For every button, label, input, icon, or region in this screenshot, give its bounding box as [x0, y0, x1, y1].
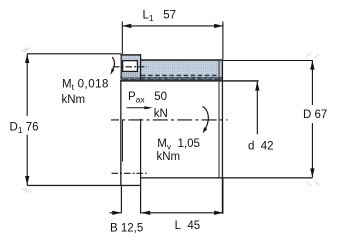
- sleeve hidden dashed line: [141, 74, 219, 76]
- moment arrow M_v (curved): [203, 106, 209, 133]
- housing bottom edge + D bottom extension: [141, 177, 313, 178]
- dimension d 42 : arrow up to bore line: [255, 82, 259, 135]
- flange bottom edge + D1 bottom extension: [27, 185, 141, 186]
- sleeve body (blue bushing section): [141, 60, 223, 77]
- housing left edge: [120, 80, 121, 186]
- svg-text:B 12,5: B 12,5: [110, 222, 143, 234]
- flange hub inner white bore box: [123, 61, 138, 72]
- svg-text:Pax 50: Pax 50: [128, 91, 167, 105]
- moment arrow M_t (curved): [110, 57, 114, 75]
- flange centerline (bottom section): [112, 172, 147, 174]
- svg-text:L1 57: L1 57: [143, 10, 177, 24]
- housing / sleeve right edge: [222, 59, 223, 214]
- flange right edge vertical (upper): [140, 54, 141, 81]
- housing left inner line: [122, 120, 123, 162]
- svg-text:kNm: kNm: [62, 94, 86, 106]
- main axis centerline: [111, 119, 228, 121]
- dimension D1 76 : vertical line + arrows: [22, 48, 122, 193]
- sleeve top edge: [140, 59, 223, 61]
- flange centerline (top section): [113, 66, 147, 68]
- housing right inner line: [219, 60, 220, 177]
- svg-text:D 67: D 67: [303, 109, 327, 121]
- P_ax arrow: [127, 106, 153, 109]
- svg-text:kN: kN: [154, 108, 168, 120]
- foot left edge / B extension: [121, 186, 122, 213]
- flange right edge vertical (lower): [140, 119, 141, 214]
- dimension B 12,5 : outside arrows: [110, 211, 122, 215]
- dimension D 67 : vertical line + arrows: [222, 53, 320, 186]
- dimension L1 57 : line + arrows: [122, 22, 223, 60]
- flange hub outer box: [120, 54, 141, 77]
- dimension L 45 : line + arrows: [141, 179, 223, 216]
- contact hatched strip under sleeve: [120, 77, 222, 81]
- svg-text:Mt 0,018: Mt 0,018: [62, 79, 109, 93]
- svg-text:Mv 1,05: Mv 1,05: [157, 138, 200, 152]
- svg-text:D1 76: D1 76: [10, 121, 39, 135]
- svg-text:L 45: L 45: [175, 220, 201, 232]
- housing top edge / d extension line: [120, 80, 258, 81]
- svg-text:d 42: d 42: [248, 141, 274, 153]
- svg-text:kNm: kNm: [157, 151, 181, 163]
